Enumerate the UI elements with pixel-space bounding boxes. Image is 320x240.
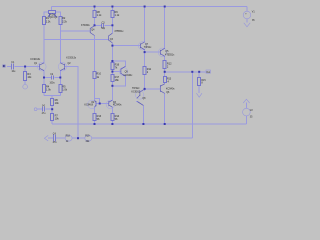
svg-text:1.0k: 1.0k <box>46 88 51 91</box>
svg-text:Q10 Q9: Q10 Q9 <box>49 17 58 19</box>
svg-text:KC940x: KC940x <box>166 88 175 91</box>
svg-text:(+): (+) <box>42 105 45 107</box>
svg-text:KC940x: KC940x <box>113 104 122 107</box>
svg-text:KC9013x: KC9013x <box>30 58 41 61</box>
svg-text:R19: R19 <box>85 136 90 138</box>
svg-text:4T5551x: 4T5551x <box>165 53 175 56</box>
svg-text:KC9012: KC9012 <box>131 90 140 93</box>
svg-text:1.1k: 1.1k <box>97 14 102 17</box>
svg-text:2.2k: 2.2k <box>62 21 67 24</box>
svg-text:R18: R18 <box>66 136 71 138</box>
svg-text:2.2k: 2.2k <box>46 21 51 24</box>
svg-text:4T5551x: 4T5551x <box>114 30 124 33</box>
svg-text:Out: Out <box>206 71 210 74</box>
svg-text:TIP41c: TIP41c <box>144 46 152 49</box>
svg-text:KT930A: KT930A <box>81 24 90 27</box>
svg-text:R13: R13 <box>167 78 172 80</box>
svg-text:100u: 100u <box>50 82 56 84</box>
svg-text:1.1k: 1.1k <box>115 14 120 17</box>
svg-text:KC9013x: KC9013x <box>66 57 77 60</box>
svg-text:1.0k: 1.0k <box>62 88 67 91</box>
svg-text:mC940x: mC940x <box>123 74 133 77</box>
svg-text:KC940x: KC940x <box>84 104 93 107</box>
